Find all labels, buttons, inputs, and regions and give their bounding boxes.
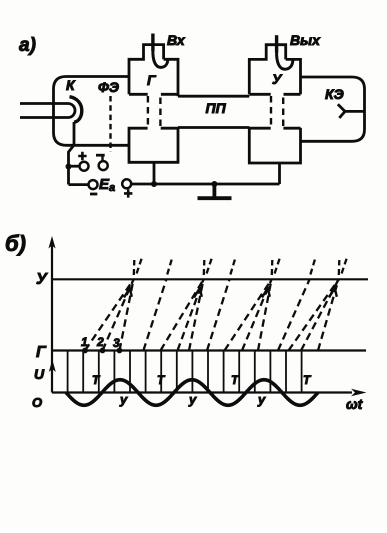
plus terminal circle: [80, 162, 89, 171]
loner 3: [278, 280, 310, 351]
svg-text:у: у: [257, 392, 266, 407]
resonator U top block: [249, 45, 300, 95]
focusing electrode dashed lead: [109, 96, 111, 152]
plus sign below: [124, 189, 132, 197]
svg-text:Вх: Вх: [167, 32, 186, 48]
axis arrowhead right: [351, 389, 367, 396]
svg-text:О: О: [32, 395, 42, 410]
U level line (catcher): [52, 278, 368, 280]
bundle 1: [85, 280, 134, 351]
collector electrode: [338, 104, 365, 118]
tube envelope (electron gun): [54, 77, 130, 146]
bunch arrowheads below catcher line: [124, 288, 337, 298]
trajectory stubs above catcher line: [134, 258, 347, 276]
collector envelope: [301, 77, 365, 141]
svg-text:U: U: [34, 366, 45, 382]
junction dot (resonator G lead): [151, 181, 157, 187]
svg-text:у: у: [119, 392, 128, 407]
bundle 2: [161, 280, 204, 351]
cathode K electrode arc: [70, 97, 82, 123]
svg-text:У: У: [272, 71, 283, 87]
voltage sine wave: [66, 380, 318, 406]
resonator G top block: [129, 45, 178, 97]
resonator G bottom block: [129, 128, 178, 162]
svg-text:Вых: Вых: [290, 32, 321, 48]
svg-text:ПП: ПП: [206, 100, 227, 116]
loner 1: [143, 280, 166, 351]
axis arrowhead top: [48, 236, 55, 249]
plus sign: [78, 152, 86, 160]
svg-text:У: У: [36, 271, 48, 288]
junction dot on cathode lead: [66, 164, 72, 170]
svg-text:Г: Г: [147, 72, 157, 88]
electron trajectories (dashed): [85, 280, 339, 351]
input line Vx: [151, 34, 154, 52]
bundle 4: [289, 280, 339, 351]
resonator U bottom block: [249, 128, 300, 163]
heater hairpin bend: [68, 104, 75, 118]
output line Vyx: [275, 35, 278, 52]
G level line (buncher): [52, 349, 366, 351]
resonator G grid gap (dashed): [148, 96, 161, 128]
minus sign below: [90, 193, 97, 196]
resonator U lead: [278, 163, 281, 184]
FE terminal tick: [101, 157, 103, 162]
cathode lead: [69, 122, 75, 185]
svg-text:а): а): [19, 35, 36, 56]
FE terminal circle (minus): [99, 161, 108, 170]
svg-text:у: у: [188, 392, 197, 407]
input coupling loop: [153, 50, 168, 67]
U axis arrowhead: [49, 360, 56, 373]
output coupling loop: [277, 52, 293, 70]
heater leads: [20, 104, 68, 118]
junction dot (ground): [211, 181, 217, 187]
horizontal axis wt: [52, 391, 352, 393]
resonator U grid gap (dashed): [271, 96, 283, 128]
bundle 3: [225, 280, 272, 351]
loner 2: [207, 280, 230, 351]
ground: [198, 184, 232, 198]
svg-text:ФЭ: ФЭ: [98, 79, 119, 95]
minus sign: [96, 154, 105, 157]
drift tube PP walls: [178, 96, 249, 127]
resonator G lead: [153, 162, 156, 184]
wire cathode lead to Ea minus circle: [69, 183, 89, 186]
wire to plus terminal: [69, 165, 80, 168]
guide verticals: [68, 352, 302, 393]
svg-text:б): б): [5, 231, 26, 256]
vertical axis: [51, 242, 53, 393]
Ea plus circle: [122, 179, 131, 188]
Ea minus circle: [89, 180, 98, 189]
electron dots 1 2 3: [82, 348, 88, 354]
svg-text:Г: Г: [36, 344, 47, 361]
svg-text:К: К: [66, 77, 76, 93]
svg-text:ωt: ωt: [346, 396, 364, 412]
svg-text:КЭ: КЭ: [325, 86, 344, 102]
svg-text:2: 2: [96, 335, 104, 349]
anode supply wire: [131, 183, 279, 186]
